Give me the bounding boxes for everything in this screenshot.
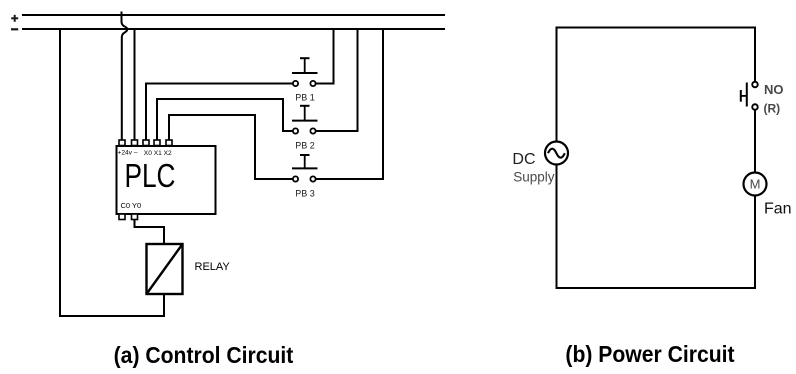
- svg-text:DC: DC: [512, 151, 535, 168]
- svg-text:RELAY: RELAY: [195, 261, 231, 273]
- svg-text:PB 3: PB 3: [295, 189, 315, 199]
- svg-text:Supply: Supply: [513, 170, 555, 185]
- svg-text:M: M: [750, 177, 761, 192]
- svg-text:X0 X1 X2: X0 X1 X2: [144, 150, 172, 157]
- svg-text:NO: NO: [764, 82, 784, 97]
- svg-text:PLC: PLC: [124, 158, 175, 195]
- svg-text:+24v –: +24v –: [118, 150, 138, 157]
- svg-text:(b) Power Circuit: (b) Power Circuit: [565, 341, 735, 367]
- svg-text:Fan: Fan: [764, 201, 792, 218]
- svg-text:PB 2: PB 2: [295, 141, 315, 151]
- svg-text:PB 1: PB 1: [295, 93, 315, 103]
- svg-text:(a) Control Circuit: (a) Control Circuit: [114, 342, 294, 368]
- svg-text:(R): (R): [764, 102, 781, 116]
- svg-text:C0 Y0: C0 Y0: [121, 201, 142, 210]
